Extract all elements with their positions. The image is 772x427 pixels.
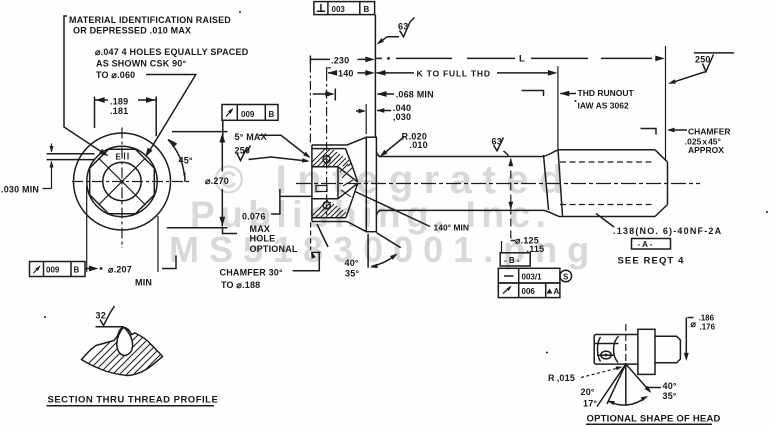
optional head apex line (625, 324, 627, 363)
svg-text:MATERIAL IDENTIFICATION RAISED: MATERIAL IDENTIFICATION RAISED (69, 15, 231, 25)
svg-text:40°: 40° (345, 258, 359, 268)
svg-text:S: S (563, 272, 569, 281)
dim dia .270 (167, 132, 228, 228)
thread callout (596, 214, 614, 228)
dim .140 (328, 70, 338, 76)
chamfer construction (317, 224, 328, 247)
head front view outer circle (74, 133, 171, 230)
spoke diagonal 1 (99, 158, 146, 205)
arc head angles (609, 397, 647, 405)
svg-text:.030 MIN: .030 MIN (1, 185, 39, 195)
svg-text:B: B (364, 5, 370, 14)
dim dia .207 (85, 268, 95, 270)
svg-text:HOLE: HOLE (250, 233, 276, 243)
svg-text:SECTION THRU THREAD PROFILE: SECTION THRU THREAD PROFILE (48, 395, 219, 406)
thread profile hatching (70, 322, 190, 406)
inner arrow .068 (313, 89, 336, 101)
svg-text:.181: .181 (110, 106, 128, 116)
svg-text:32: 32 (96, 311, 106, 321)
svg-text:20°: 20° (581, 387, 595, 397)
svg-text:APPROX: APPROX (688, 145, 724, 155)
svg-text:140: 140 (338, 69, 354, 79)
optional head flange (638, 329, 655, 374)
speck dots (239, 11, 241, 13)
svg-text:E: E (116, 153, 122, 162)
bolt end face (667, 162, 669, 205)
cross hole lower (323, 202, 330, 209)
fillet bottom (376, 210, 381, 215)
bolt end chamfer top (655, 150, 668, 162)
svg-text:17°: 17° (583, 398, 597, 408)
svg-text:003: 003 (332, 5, 346, 14)
head top edge (312, 145, 347, 149)
thread crest top (558, 149, 655, 151)
frame runout 009 B (222, 105, 278, 121)
svg-text:TO ⌀.060: TO ⌀.060 (96, 70, 135, 80)
svg-text:AS SHOWN CSK 90°: AS SHOWN CSK 90° (96, 59, 187, 69)
arrow hole upper-right (143, 148, 153, 159)
hook full thread (522, 91, 544, 97)
svg-text:SEE REQT 4: SEE REQT 4 (618, 256, 685, 267)
svg-text:.068 MIN: .068 MIN (396, 90, 434, 100)
svg-text:35°: 35° (663, 391, 677, 401)
svg-text:006: 006 (522, 287, 536, 296)
head section left face (311, 145, 313, 222)
fan line 20 (607, 364, 626, 404)
thread crest bottom (559, 216, 655, 218)
horizontal centerline front view (72, 181, 191, 183)
arrow hole upper-left (99, 149, 110, 159)
dim dia .207 extension lines (87, 186, 158, 272)
head bottom edge (312, 218, 347, 222)
thread profile top bar (96, 326, 124, 328)
svg-text:- B -: - B - (504, 256, 520, 265)
extension line thread start (557, 66, 559, 149)
svg-text:5° MAX: 5° MAX (235, 132, 267, 142)
socket detail rect (316, 186, 327, 192)
dim .030 min ticks (43, 144, 52, 189)
runout band line 2 (558, 150, 563, 216)
frame leg (222, 120, 224, 138)
optional head inner arcs (595, 336, 619, 363)
svg-text:OPTIONAL: OPTIONAL (250, 244, 298, 254)
svg-text:IAW AS 3062: IAW AS 3062 (578, 100, 629, 110)
section scribbles (340, 164, 353, 197)
dim 40 35 head angle (367, 234, 369, 268)
svg-text:,030: ,030 (393, 112, 411, 122)
leader material note (64, 16, 104, 154)
bolt centerline (296, 183, 700, 185)
svg-text:B: B (74, 266, 80, 275)
svg-text:K TO FULL THD: K TO FULL THD (417, 68, 491, 78)
svg-text:THD RUNOUT: THD RUNOUT (578, 88, 635, 98)
head hatch lower (304, 200, 364, 248)
dim dia .125 .115 (510, 159, 512, 241)
svg-text:- A -: - A - (638, 240, 653, 249)
thread minor dashed bottom (560, 204, 654, 206)
svg-text:OR DEPRESSED .010 MAX: OR DEPRESSED .010 MAX (73, 26, 191, 36)
svg-text:250: 250 (695, 55, 711, 65)
head front view inner circle (103, 162, 141, 200)
extension line flange face (374, 15, 376, 137)
svg-text:⌀.207: ⌀.207 (108, 265, 132, 275)
svg-text:0.076: 0.076 (242, 211, 266, 221)
frame straightness (498, 268, 571, 283)
svg-text:.138(NO. 6)-40NF-2A: .138(NO. 6)-40NF-2A (613, 226, 722, 236)
head front view socket circle (87, 146, 157, 216)
spoke diagonal 2 (99, 158, 146, 205)
cone inner top (346, 149, 353, 167)
fan line 40 (626, 364, 650, 392)
datum B box (501, 241, 503, 253)
svg-text:.186: .186 (699, 314, 715, 323)
svg-text:140° MIN: 140° MIN (434, 222, 470, 232)
cross hole upper (323, 156, 330, 163)
fan line 17 (597, 364, 626, 407)
dim K to full thd (376, 70, 386, 76)
thread profile groove (117, 327, 133, 355)
socket octagon (90, 149, 155, 214)
center dot (120, 180, 123, 183)
hook thread end (641, 129, 657, 135)
thread runout taper bottom (544, 210, 559, 216)
svg-text:.230: .230 (331, 56, 349, 66)
svg-text:CHAMFER: CHAMFER (688, 126, 731, 136)
leader 40 35 labels (648, 387, 661, 389)
svg-text:.189: .189 (110, 97, 128, 107)
svg-text:TO ⌀.188: TO ⌀.188 (221, 280, 260, 290)
svg-text:009: 009 (241, 110, 255, 119)
dim .030 min lines (47, 154, 95, 160)
optional head socket mark (601, 351, 611, 359)
leader 140 deg min (355, 192, 430, 227)
optional head shank (655, 336, 680, 363)
svg-text:MIN: MIN (135, 278, 152, 288)
dim .230 (310, 56, 369, 64)
svg-text:CHAMFER 30°: CHAMFER 30° (220, 267, 284, 277)
svg-text:35°: 35° (345, 268, 359, 278)
thread profile outline (82, 327, 163, 375)
svg-text:A: A (554, 287, 560, 296)
svg-text:⌀.270: ⌀.270 (205, 176, 229, 186)
frame perpendicularity 003 B (314, 2, 375, 15)
thread minor dashed top (560, 161, 654, 163)
extension line bolt end (665, 46, 667, 161)
dim L line (376, 57, 652, 59)
socket bore (312, 167, 338, 199)
svg-text:40°: 40° (663, 381, 677, 391)
optional head block (594, 335, 638, 365)
flange washer face (366, 137, 376, 232)
shank top edge (379, 156, 544, 158)
head cone top (347, 137, 366, 145)
thread runout taper top (543, 150, 558, 157)
frame runout .006 A (498, 283, 560, 298)
svg-text:MAX: MAX (250, 224, 271, 234)
svg-text:L: L (519, 54, 525, 65)
cone inner bottom (346, 199, 353, 218)
svg-text:003/1: 003/1 (522, 272, 543, 281)
fillet top (376, 152, 381, 157)
socket cone point (338, 167, 358, 199)
datum A flag (632, 239, 671, 250)
extension line head face (309, 64, 311, 145)
leader 4 holes (146, 75, 196, 153)
runout band line 1 (544, 155, 549, 210)
vertical centerline front view (121, 128, 123, 249)
shank bottom edge (379, 209, 545, 211)
svg-text:⌀.047 4 HOLES EQUALLY SPACED: ⌀.047 4 HOLES EQUALLY SPACED (95, 47, 249, 57)
dim .068 min (377, 91, 387, 97)
arc 45 deg (168, 140, 184, 176)
head hatch upper (304, 146, 364, 194)
svg-text:.176: .176 (700, 323, 716, 332)
svg-text:009: 009 (46, 266, 60, 275)
svg-text:⌀: ⌀ (691, 319, 697, 329)
extension line hole centerline (327, 68, 331, 216)
dim dia .207 frame box (30, 262, 86, 277)
svg-text:OPTIONAL SHAPE OF HEAD: OPTIONAL SHAPE OF HEAD (587, 414, 721, 425)
tick 45 deg (184, 173, 186, 183)
bolt end chamfer bottom (655, 205, 668, 217)
svg-text:R,015: R,015 (548, 373, 575, 383)
dim dia .186 .176 (686, 318, 693, 359)
head cone bottom (347, 222, 366, 232)
svg-text:.010: .010 (410, 140, 428, 150)
svg-text:B: B (269, 110, 275, 119)
finish 250 right (694, 52, 734, 54)
